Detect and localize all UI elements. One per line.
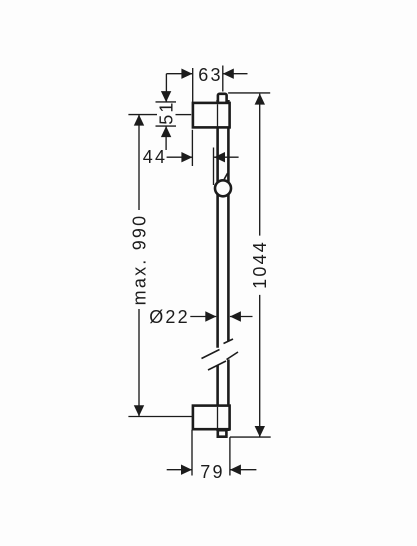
svg-text:51: 51 [157,100,177,124]
svg-text:1044: 1044 [250,240,270,289]
svg-text:max. 990: max. 990 [129,214,149,306]
svg-text:79: 79 [200,462,224,482]
svg-text:44: 44 [143,147,167,167]
svg-text:Ø22: Ø22 [149,307,190,327]
svg-text:63: 63 [198,65,222,85]
